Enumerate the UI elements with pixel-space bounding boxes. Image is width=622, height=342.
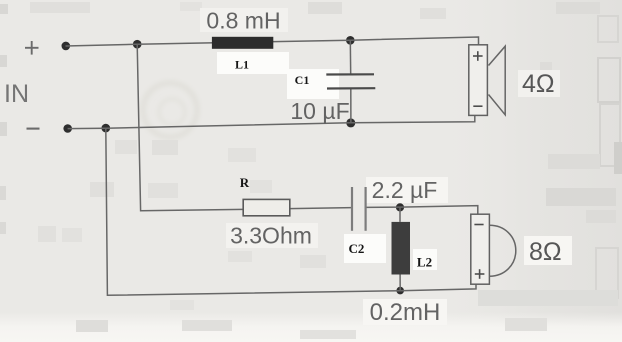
speaker 4-ohm cone	[489, 46, 506, 115]
whiteout patch under L1 label	[217, 52, 289, 74]
svg-text:L2: L2	[417, 255, 432, 270]
svg-text:IN: IN	[4, 80, 29, 108]
speaker 8-ohm dome	[490, 225, 516, 276]
speaker 8-ohm impedance label	[529, 238, 562, 266]
wire bottom (-) rail to 4-ohm speaker	[68, 115, 475, 129]
node F top rail C1 junction	[346, 36, 355, 45]
wire vertical branch from node B down to resistor row	[137, 44, 243, 210]
node E bottom rail C1 junction	[346, 118, 355, 127]
node IN+ terminal dot	[62, 42, 71, 51]
svg-text:2.2 µF: 2.2 µF	[372, 177, 438, 203]
svg-text:10 µF: 10 µF	[290, 98, 349, 124]
capacitor C2 plates	[352, 187, 366, 231]
input IN label	[4, 80, 29, 108]
capacitor C1 plates	[326, 74, 375, 88]
node D junction bottom rail	[102, 124, 111, 133]
whiteout patch under L2 label	[413, 249, 437, 270]
whiteout patch under C1 / 10 uF labels	[287, 69, 339, 99]
wire vertical branch from node D down and bottom return rail to 8-ohm speaker	[106, 128, 476, 295]
svg-text:0.8 mH: 0.8 mH	[206, 8, 280, 34]
svg-text:8Ω: 8Ω	[529, 238, 562, 266]
inductor L2 body	[392, 222, 411, 275]
inductor L2 value 0.2mH	[370, 299, 441, 326]
speaker 4-ohm plus mark	[473, 51, 483, 61]
node IN- terminal dot	[63, 124, 72, 133]
wire resistor to C2	[290, 208, 352, 209]
whiteout patch under 3.3Ohm label	[226, 223, 318, 248]
speaker 8-ohm plus mark	[475, 269, 485, 279]
inductor L1 designator	[235, 58, 249, 72]
speaker 8-ohm minus mark	[474, 224, 483, 226]
node G C2-L2 junction	[396, 203, 404, 211]
inductor L2 designator	[417, 255, 432, 270]
wire C1 bottom lead	[350, 88, 352, 123]
speaker 4-ohm minus mark	[473, 105, 482, 107]
capacitor C2 value 2.2 uF	[372, 177, 438, 203]
whiteout patch under C2 label	[344, 234, 386, 263]
node H L2 bottom junction	[396, 287, 404, 295]
speaker 8-ohm driver box	[471, 214, 490, 284]
whiteout patch under 8 ohm label	[524, 236, 572, 265]
svg-text:L1: L1	[235, 58, 249, 72]
whiteout patch under 0.8 mH label	[200, 8, 288, 32]
node B junction top rail	[133, 40, 142, 49]
svg-text:C2: C2	[349, 241, 365, 256]
speaker 4-ohm impedance label	[522, 70, 555, 98]
whiteout patch under 4 ohm label	[518, 70, 560, 97]
capacitor C1 value 10 uF	[290, 98, 349, 124]
resistor R value 3.3Ohm	[230, 223, 312, 249]
inductor L1 body	[212, 37, 273, 49]
speaker 4-ohm driver box	[469, 45, 488, 116]
inductor L1 value 0.8 mH	[206, 8, 280, 34]
capacitor C1 designator	[295, 73, 310, 87]
capacitor C2 designator	[349, 241, 365, 256]
wire C1 top lead	[349, 40, 351, 74]
svg-text:R: R	[240, 175, 250, 190]
input minus sign	[27, 128, 40, 130]
svg-text:C1: C1	[295, 73, 310, 87]
whiteout patch under 2.2 uF label	[366, 177, 448, 203]
svg-text:4Ω: 4Ω	[522, 70, 555, 98]
svg-text:0.2mH: 0.2mH	[370, 299, 441, 326]
wire C2 to node G and on to 8-ohm speaker	[366, 206, 478, 215]
svg-text:3.3Ohm: 3.3Ohm	[230, 223, 312, 249]
whiteout patch under 0.2mH label	[363, 299, 447, 325]
input plus sign	[25, 41, 39, 55]
wire top (+) rail to 4-ohm speaker	[66, 37, 479, 46]
resistor R body	[243, 199, 290, 215]
resistor R designator	[240, 175, 250, 190]
wire L2 leads	[399, 207, 401, 290]
